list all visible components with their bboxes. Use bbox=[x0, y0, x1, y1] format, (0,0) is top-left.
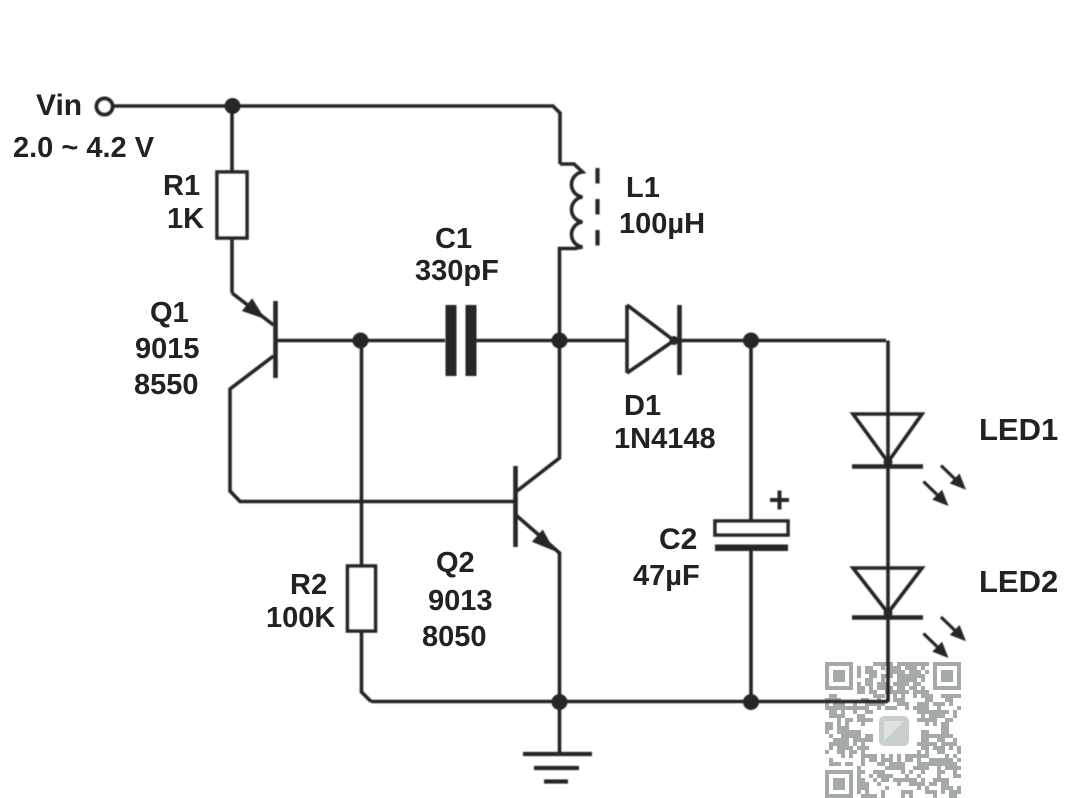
svg-text:1K: 1K bbox=[167, 203, 204, 235]
LED2 cathode bar bbox=[852, 615, 923, 620]
svg-text:9015: 9015 bbox=[135, 333, 200, 365]
svg-text:47µF: 47µF bbox=[633, 560, 700, 592]
capacitor C2 plus sign bbox=[770, 491, 789, 510]
LED1 light arrows bbox=[941, 466, 957, 482]
LED1 bbox=[853, 414, 922, 462]
wire top supply rail bbox=[113, 106, 560, 164]
svg-text:C2: C2 bbox=[659, 523, 697, 556]
svg-text:LED1: LED1 bbox=[979, 412, 1058, 447]
svg-text:1N4148: 1N4148 bbox=[614, 423, 716, 455]
svg-text:LED2: LED2 bbox=[979, 564, 1058, 599]
LED2 bbox=[853, 568, 922, 613]
transistor Q2 emitter bbox=[517, 516, 560, 702]
transistor Q1 base bar bbox=[273, 301, 278, 378]
transistor Q2 collector bbox=[517, 342, 560, 491]
svg-text:C1: C1 bbox=[435, 223, 472, 255]
wire bottom ground rail bbox=[371, 700, 888, 704]
capacitor C2 top plate bbox=[715, 521, 788, 535]
svg-text:Vin: Vin bbox=[36, 89, 82, 122]
svg-text:8550: 8550 bbox=[134, 369, 199, 401]
ground bbox=[558, 703, 562, 754]
QR watermark bbox=[825, 662, 961, 798]
node Vin terminal bbox=[97, 99, 113, 115]
junction ground rail / Q2 emitter / ground bbox=[552, 694, 568, 710]
svg-text:9013: 9013 bbox=[428, 585, 493, 617]
wire R2 top lead bbox=[360, 340, 364, 566]
capacitor C2 bottom plate bbox=[715, 545, 788, 552]
LED1 cathode bar bbox=[852, 464, 923, 469]
svg-text:330pF: 330pF bbox=[415, 255, 499, 287]
inductor L1 core dashes bbox=[595, 168, 599, 246]
wire R1 top lead bbox=[230, 106, 234, 172]
svg-text:2.0 ~ 4.2 V: 2.0 ~ 4.2 V bbox=[13, 132, 155, 164]
svg-text:Q1: Q1 bbox=[150, 297, 189, 329]
resistor R2 bbox=[348, 566, 376, 631]
svg-text:L1: L1 bbox=[626, 172, 660, 204]
wire C2 top lead bbox=[749, 340, 753, 521]
wire LED chain vertical bbox=[886, 341, 890, 703]
junction output node / C2 bbox=[743, 333, 759, 349]
resistor R1 bbox=[217, 172, 247, 238]
inductor L1 bbox=[560, 164, 583, 340]
wire C1 to D1 bbox=[476, 339, 627, 343]
transistor Q1 collector bbox=[230, 356, 514, 502]
junction ground rail / C2 bbox=[743, 694, 759, 710]
svg-text:R1: R1 bbox=[163, 170, 200, 202]
wire Q1 base to C1 bbox=[277, 339, 445, 343]
wire C2 bottom lead bbox=[749, 551, 753, 703]
diode D1 cathode bar bbox=[677, 305, 682, 375]
junction base node / R2 bbox=[353, 333, 369, 349]
svg-text:R2: R2 bbox=[290, 569, 327, 601]
wire D1 to output node bbox=[681, 339, 886, 343]
svg-text:100µH: 100µH bbox=[619, 208, 705, 240]
capacitor C1 left plate bbox=[446, 305, 457, 376]
capacitor C1 right plate bbox=[466, 305, 477, 376]
wire R1 bottom lead bbox=[230, 238, 234, 293]
transistor Q1 emitter bbox=[232, 293, 274, 325]
svg-text:8050: 8050 bbox=[422, 621, 487, 653]
transistor Q2 base bar bbox=[513, 466, 518, 547]
svg-text:D1: D1 bbox=[624, 390, 661, 422]
diode D1 bbox=[627, 305, 674, 373]
svg-text:100K: 100K bbox=[266, 602, 335, 634]
junction top rail / R1 bbox=[225, 98, 241, 114]
svg-text:Q2: Q2 bbox=[436, 547, 475, 579]
wire R2 bottom lead bbox=[362, 631, 372, 702]
LED2 light arrows bbox=[941, 617, 957, 633]
junction L1 / C1 / Q2 collector bbox=[552, 333, 568, 349]
